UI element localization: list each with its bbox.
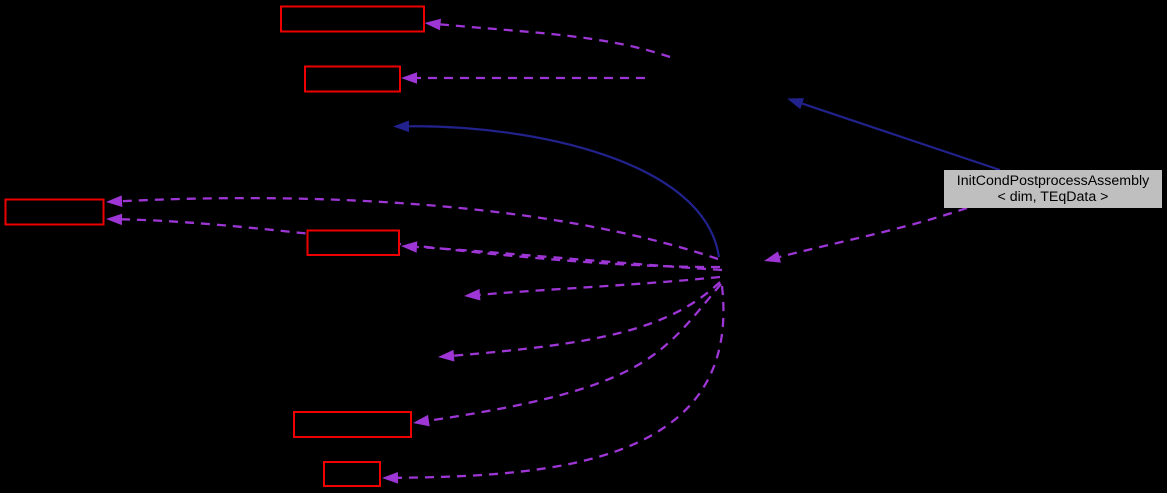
svg-text:< dim, TEqData >: < dim, TEqData > (998, 189, 1109, 205)
edge InitCond->topnode (blue) (787, 98, 1000, 170)
edge centernode->hidden node A (464, 277, 720, 301)
node InitCondPostprocessAssembly (gray highlighted node) (944, 170, 1162, 208)
node box6 (red class box, bottom small) (324, 462, 380, 486)
node box2 (red class box) (305, 67, 400, 92)
svg-text:InitCondPostprocessAssembly: InitCondPostprocessAssembly (957, 173, 1150, 189)
edge centernode->box6 (382, 286, 723, 484)
edge centernode->box5 (413, 284, 721, 426)
edge centernode->hidden base (blue) (393, 121, 719, 258)
edge centernode->box4 (401, 241, 722, 270)
node box3 (red class box, far left) (6, 200, 104, 225)
node box4 (red class box, middle) (308, 231, 400, 256)
edge centernode->box3 (lower) (106, 214, 720, 267)
node box1 (red class box, top) (281, 7, 424, 32)
edge topnode->box2 (401, 72, 645, 84)
edge centernode->hidden node B (438, 282, 720, 362)
edge centernode->box3 (upper) (106, 195, 718, 259)
edge InitCond->centernode (764, 208, 967, 263)
node box5 (red class box, bottom) (294, 412, 411, 437)
edge topnode->box1 (425, 19, 671, 57)
